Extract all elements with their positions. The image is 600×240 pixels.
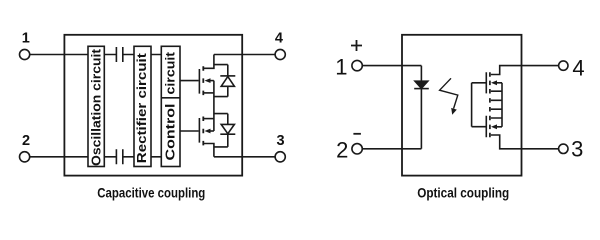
svg-text:Control: Control <box>163 104 177 161</box>
svg-text:Oscillation circuit: Oscillation circuit <box>89 48 103 166</box>
svg-text:1: 1 <box>335 55 347 80</box>
svg-text:3: 3 <box>571 136 583 161</box>
svg-text:Optical coupling: Optical coupling <box>417 185 509 201</box>
svg-text:Rectifier circuit: Rectifier circuit <box>135 52 149 163</box>
svg-text:2: 2 <box>336 138 348 163</box>
svg-text:4: 4 <box>275 31 283 47</box>
svg-text:Capacitive coupling: Capacitive coupling <box>97 185 205 201</box>
svg-text:3: 3 <box>277 133 285 149</box>
svg-text:4: 4 <box>572 56 584 81</box>
svg-text:2: 2 <box>22 133 30 149</box>
svg-text:circuit: circuit <box>163 51 177 94</box>
svg-text:1: 1 <box>22 31 30 47</box>
